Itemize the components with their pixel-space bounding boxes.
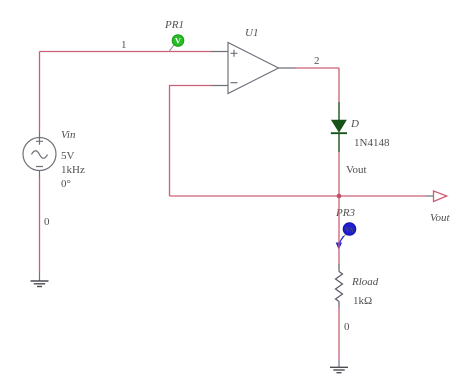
wire: source top up to corner — [39, 52, 41, 132]
svg-text:1kHz: 1kHz — [61, 164, 85, 176]
ground right — [330, 360, 348, 373]
svg-text:Vout: Vout — [430, 212, 451, 224]
resistor Rload — [336, 264, 343, 308]
wire: op-amp output to corner — [296, 67, 339, 69]
svg-text:0: 0 — [344, 321, 350, 333]
wire: source bottom to ground — [39, 178, 41, 274]
wire: corner down to diode — [338, 68, 340, 102]
svg-text:U1: U1 — [245, 27, 258, 39]
svg-text:D: D — [350, 118, 359, 130]
svg-text:5V: 5V — [61, 150, 75, 162]
svg-text:0°: 0° — [61, 178, 71, 190]
svg-text:0: 0 — [44, 216, 50, 228]
svg-text:1N4148: 1N4148 — [354, 137, 390, 149]
svg-text:Rload: Rload — [351, 276, 379, 288]
svg-text:2: 2 — [314, 55, 320, 67]
op-amp U1 — [211, 43, 296, 94]
wire: resistor to ground — [338, 308, 340, 360]
wire: Vout horizontal rail — [170, 195, 427, 197]
svg-text:V: V — [175, 36, 182, 46]
svg-text:Vin: Vin — [61, 129, 76, 141]
svg-text:1: 1 — [121, 39, 127, 51]
output connector Vout — [426, 191, 447, 202]
ground left — [31, 273, 49, 287]
svg-text:VA: VA — [346, 228, 355, 234]
wire: diode to Vout node — [338, 152, 340, 196]
wire: feedback from - pin to Vout rail — [170, 86, 212, 197]
wire: top horizontal to op-amp + pin — [40, 51, 212, 53]
probe PR1 — [170, 35, 184, 51]
svg-text:Vout: Vout — [346, 164, 367, 176]
svg-text:1kΩ: 1kΩ — [353, 295, 372, 307]
wire: Vout node down to resistor — [338, 196, 340, 264]
svg-text:PR1: PR1 — [164, 19, 184, 31]
svg-text:PR3: PR3 — [335, 207, 355, 219]
probe PR3 — [336, 223, 356, 250]
source Vin — [23, 131, 56, 178]
diode D — [331, 102, 347, 152]
junction at Vout node — [337, 194, 342, 199]
